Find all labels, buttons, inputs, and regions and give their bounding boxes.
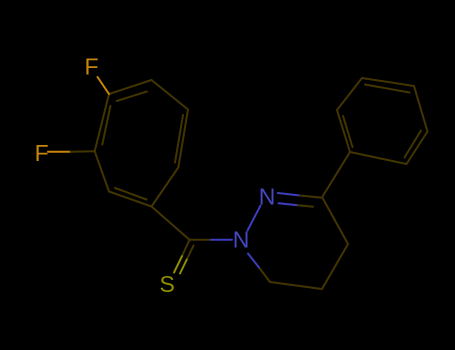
wire H-G edge xyxy=(95,151,109,191)
wire inner double bond G-A xyxy=(102,106,110,145)
wire C4-C5 xyxy=(322,244,348,289)
bond C6 to N1 half carbon half blue xyxy=(259,268,270,283)
wire C3-C4 xyxy=(323,198,349,244)
wire P4-P5 xyxy=(414,86,428,132)
wire inner double bond C-D xyxy=(175,115,183,163)
wire D-I edge xyxy=(152,168,179,207)
double bond N2=C3 main line xyxy=(278,193,300,196)
wire G-A left edge xyxy=(95,94,109,151)
bond N1-N2 (blue) xyxy=(248,206,261,231)
wire T-C edge xyxy=(152,80,189,110)
wire P2-P3 xyxy=(337,78,362,110)
svg-text:N: N xyxy=(259,183,276,209)
thiocarbonyl C=S double bond main line xyxy=(182,240,190,256)
svg-text:F: F xyxy=(35,140,49,166)
bond C3 to phenyl ipso xyxy=(323,152,351,197)
wire I-H bottom edge xyxy=(109,192,152,207)
wire P3-P4 xyxy=(362,78,414,86)
dihydropyridazine ring carbon edges xyxy=(270,198,348,289)
wire P5-P6 xyxy=(407,132,428,165)
wire inner double bond P3-P4 xyxy=(365,85,410,93)
wire P1-P2 xyxy=(337,110,350,152)
fluorine F1 bond (orange) xyxy=(98,77,110,94)
wire ipso to thiocarbonyl C xyxy=(152,207,190,240)
svg-text:S: S xyxy=(160,271,175,297)
wire P6-P1 xyxy=(350,152,407,164)
wire inner double bond P1-P2 xyxy=(343,116,353,147)
fluorine F2 bond half orange xyxy=(48,151,71,153)
svg-text:N: N xyxy=(233,227,250,253)
benzene ring (3,4-difluorophenyl) outline xyxy=(95,80,188,207)
wire A-T top edge xyxy=(109,80,152,94)
wire C5-C6 xyxy=(270,282,322,289)
wire inner double bond P5-P6 xyxy=(405,131,422,158)
phenyl ring outline xyxy=(337,78,428,164)
svg-text:F: F xyxy=(85,53,99,79)
wire C-D right edge xyxy=(178,110,188,168)
wire inner double bond A-T xyxy=(117,92,147,102)
double bond N2=C3 inner line xyxy=(279,203,299,205)
wire inner double bond I-H xyxy=(115,188,147,200)
thiocarbonyl C=S double bond second line xyxy=(187,246,194,260)
fluorine F2 bond half carbon xyxy=(71,150,95,152)
bond C to N1, half carbon half blue xyxy=(190,239,211,241)
